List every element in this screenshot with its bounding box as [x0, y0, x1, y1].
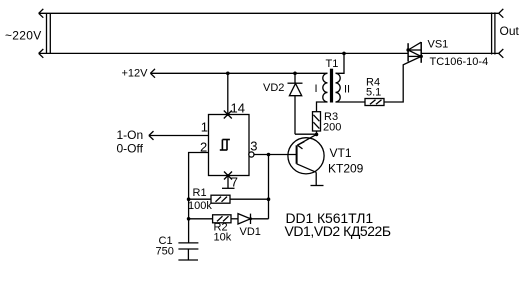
svg-text:TC106-10-4: TC106-10-4 — [430, 56, 489, 68]
svg-text:VD1: VD1 — [240, 226, 261, 238]
wire 220V top — [39, 12, 499, 14]
pin 7 X mark — [224, 172, 232, 180]
node R2 left — [187, 217, 191, 221]
wire pin 14 riser — [227, 73, 229, 114]
terminal Out bars — [492, 12, 495, 54]
svg-text:Out: Out — [500, 24, 520, 38]
wire +12V rail — [150, 72, 327, 74]
svg-text:100k: 100k — [188, 200, 212, 212]
common bar C1 — [178, 259, 198, 261]
arrow out bottom — [499, 49, 504, 58]
arrow left bottom — [39, 49, 44, 58]
terminal X1 ~220V bars — [47, 13, 51, 54]
diode VD2 — [288, 73, 317, 134]
triac VS1 — [406, 42, 423, 63]
wire 220V bottom left — [39, 52, 409, 54]
svg-text:II: II — [344, 84, 350, 96]
wire pin 2 to left rail — [189, 153, 209, 243]
node pin3 junction — [267, 153, 271, 157]
svg-text:5.1: 5.1 — [366, 87, 381, 99]
resistor R1 — [189, 195, 269, 203]
arrow left top — [39, 9, 44, 18]
svg-text:0-Off: 0-Off — [117, 142, 144, 156]
diode VD1 — [231, 214, 269, 224]
wire gate of VS1 — [384, 56, 421, 102]
svg-text:200: 200 — [323, 122, 341, 134]
svg-text:VD2: VD2 — [263, 82, 284, 94]
resistor R3 — [313, 102, 328, 136]
DD1 schmitt hysteresis symbol — [220, 140, 230, 151]
svg-text:1-On: 1-On — [117, 128, 144, 142]
svg-text:T1: T1 — [326, 58, 339, 70]
common bar VT1 — [311, 185, 324, 187]
node R1 right — [267, 197, 271, 201]
transformer T1 winding I — [323, 73, 328, 102]
node rail to pin14 — [226, 72, 230, 76]
op-amp DD1 chip body — [209, 115, 250, 176]
svg-text:+12V: +12V — [122, 68, 149, 80]
svg-text:VD1,VD2 КД522Б: VD1,VD2 КД522Б — [285, 223, 391, 239]
wire pin 1 input — [149, 135, 209, 137]
arrow +12V — [150, 69, 155, 78]
wire right vertical — [268, 155, 270, 219]
svg-text:VS1: VS1 — [428, 39, 449, 51]
capacitor C1 — [178, 243, 198, 260]
transformer T1 core — [330, 69, 333, 103]
wire riser to winding II — [336, 53, 345, 73]
arrow out top — [499, 9, 504, 18]
transistor VT1 — [288, 135, 324, 186]
svg-text:1: 1 — [201, 120, 208, 135]
DD1 output bubble pin 3 — [249, 152, 254, 157]
resistor R2 — [189, 215, 231, 223]
common bar pin7 — [222, 187, 235, 189]
svg-text:3: 3 — [250, 139, 257, 154]
node rail to VD2 — [293, 72, 297, 76]
svg-text:750: 750 — [156, 246, 174, 258]
wire pin 7 stem — [227, 176, 229, 189]
svg-text:2: 2 — [200, 140, 207, 155]
wire triac to Out — [422, 52, 499, 54]
svg-text:~220V: ~220V — [5, 29, 42, 43]
svg-text:14: 14 — [231, 101, 245, 116]
svg-text:KT209: KT209 — [328, 162, 364, 176]
svg-text:7: 7 — [231, 175, 238, 190]
resistor R4 — [365, 99, 384, 106]
node R3 bottom — [315, 133, 319, 137]
arrow pin1 — [149, 131, 154, 140]
wire pin 3 to base — [254, 154, 297, 156]
svg-text:VT1: VT1 — [330, 146, 352, 160]
svg-text:10k: 10k — [214, 232, 232, 244]
svg-text:R1: R1 — [193, 187, 207, 199]
wire winding II to R4 — [336, 101, 366, 103]
node R1 left — [187, 197, 191, 201]
node junction winding II top — [342, 52, 346, 56]
svg-text:I: I — [315, 83, 318, 95]
pin 14 X mark — [224, 111, 232, 119]
transformer T1 winding II — [336, 73, 341, 102]
